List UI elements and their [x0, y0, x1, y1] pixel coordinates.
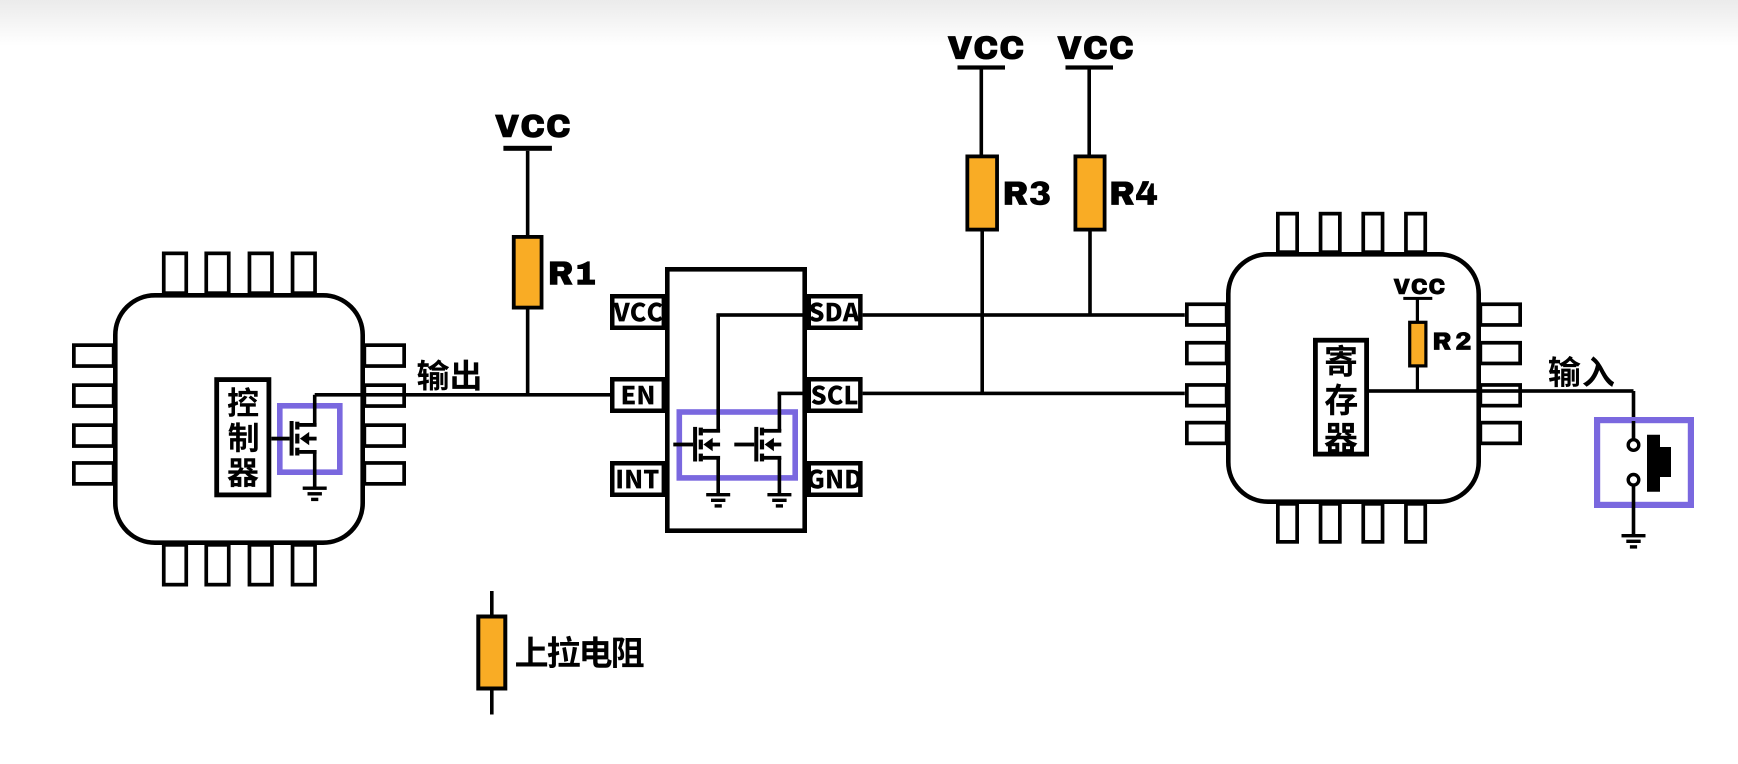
transistor Q3 (right NMOS in U2)	[734, 427, 781, 462]
wire: Q2 drain up to SDA row	[716, 313, 808, 431]
chip U3 (register QFP) top pins	[1278, 214, 1425, 253]
label 制	[228, 422, 257, 452]
resistor R1	[514, 237, 542, 308]
highlight box (purple) around U2 MOSFETs	[679, 412, 795, 478]
label 输入	[1549, 356, 1614, 387]
label 寄	[1326, 345, 1356, 377]
ground (below switch)	[1622, 534, 1646, 549]
wire R3 to SCL net	[980, 230, 984, 393]
controller U1 inner label box	[217, 380, 269, 495]
wire 输出 net: Q1 drain to EN pin with R1 tap	[315, 393, 610, 397]
wire 输入 net: register to switch	[1369, 389, 1635, 420]
resistor R4	[1075, 156, 1104, 229]
switch SW1 bottom contact	[1628, 475, 1639, 486]
label R3	[1005, 181, 1050, 205]
transistor Q1 (NMOS inside U1)	[271, 421, 316, 456]
U2 pin EN	[612, 379, 664, 411]
chip U1 (controller QFP) left pins	[74, 345, 114, 484]
wire R4 to SDA net	[1088, 230, 1092, 315]
power symbol VCC (above R3)	[958, 65, 1006, 69]
label R1	[550, 261, 595, 284]
wire: Q2/Q3 sources down to grounds	[716, 458, 781, 493]
label R4	[1111, 181, 1157, 205]
highlight box (purple) around U1 MOSFET	[280, 406, 340, 472]
ground (Q3 source)	[767, 493, 791, 508]
wire SCL net	[863, 392, 1185, 396]
U2 pin GND	[809, 463, 861, 495]
wire SDA net	[863, 313, 1185, 317]
chip U3 (register QFP) body	[1228, 254, 1478, 501]
legend resistor symbol (pull-up resistor)	[490, 591, 494, 715]
chip U1 (controller QFP) top pins	[164, 253, 315, 293]
chip U1 (controller QFP) bottom pins	[164, 545, 315, 585]
highlight box (purple) around switch SW1	[1597, 420, 1691, 505]
power symbol VCC (above R4)	[1066, 65, 1114, 69]
resistor R2	[1410, 322, 1426, 366]
IC U2 body	[667, 269, 804, 530]
label 器	[228, 458, 259, 487]
wire VCC to R1	[526, 151, 530, 237]
chip U1 (controller QFP) body	[115, 295, 362, 542]
power symbol VCC (above R1)	[503, 146, 552, 151]
wire: switch top contact lead	[1632, 421, 1636, 439]
label 控	[228, 387, 258, 417]
chip U3 (register QFP) left pins	[1187, 304, 1227, 443]
power symbol VCC (above R2)	[1403, 297, 1432, 300]
register U3 inner label box	[1315, 340, 1366, 454]
U2 pin SCL	[809, 379, 861, 411]
wire: switch bottom contact to ground	[1632, 486, 1636, 534]
wire VCC to R3	[980, 70, 984, 157]
wire: Q3 drain up to SCL row	[778, 392, 808, 431]
U2 pin VCC	[612, 296, 664, 328]
wire R1 to output net	[526, 308, 530, 395]
ground (Q2 source)	[706, 493, 730, 508]
chip U3 (register QFP) bottom pins	[1278, 504, 1425, 542]
transistor Q2 (left NMOS in U2)	[673, 427, 720, 462]
label 上拉电阻	[516, 636, 644, 668]
wire VCC to R2	[1416, 299, 1419, 323]
chip U3 (register QFP) right pins	[1480, 304, 1520, 443]
label 器 (U3)	[1325, 423, 1358, 454]
switch SW1 actuator	[1647, 435, 1671, 492]
wire VCC to R4	[1087, 70, 1091, 157]
resistor R3	[967, 156, 997, 229]
wire: Q1 drain up to output, source down to ground	[313, 395, 317, 487]
label 存	[1325, 383, 1357, 415]
ground (U1 source)	[303, 487, 327, 502]
chip U1 (controller QFP) right pins	[364, 345, 404, 484]
wire R2 to input net	[1416, 366, 1419, 391]
U2 pin SDA	[809, 296, 861, 328]
U2 pin INT	[612, 463, 664, 495]
label R2	[1434, 332, 1471, 350]
label 输出	[417, 359, 479, 390]
switch SW1 top contact	[1628, 440, 1639, 451]
